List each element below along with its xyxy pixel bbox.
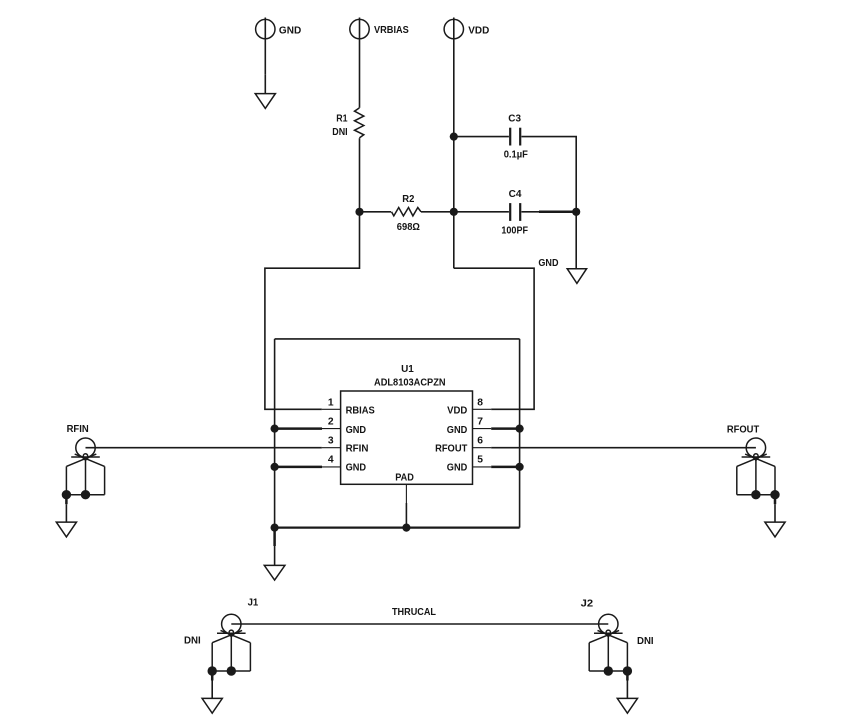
- svg-text:DNI: DNI: [332, 127, 347, 138]
- wire VRBIAS to R1: [359, 18, 361, 108]
- node VDD/C3 junction: [450, 133, 458, 141]
- svg-text:5: 5: [477, 454, 483, 465]
- svg-text:R1: R1: [336, 114, 348, 125]
- wire C4 right: [522, 211, 540, 213]
- svg-text:RFOUT: RFOUT: [727, 424, 760, 435]
- svg-text:DNI: DNI: [637, 636, 654, 647]
- svg-text:RFOUT: RFOUT: [435, 443, 468, 454]
- svg-text:GND: GND: [346, 425, 367, 436]
- chip body: [341, 391, 473, 484]
- svg-text:VDD: VDD: [468, 25, 489, 36]
- wire C4 right thick: [539, 211, 576, 214]
- svg-text:C4: C4: [509, 189, 522, 200]
- capacitor C3 0.1uF: [504, 113, 528, 160]
- connector J1 (DNI): [184, 598, 259, 713]
- svg-text:GND: GND: [447, 462, 468, 473]
- pin 2 stub: [322, 428, 341, 430]
- svg-text:RBIAS: RBIAS: [346, 406, 375, 417]
- wire THRUCAL J1 to J2: [231, 623, 608, 625]
- wire to C4: [454, 211, 509, 213]
- svg-text:GND: GND: [279, 25, 301, 36]
- svg-text:3: 3: [328, 436, 334, 447]
- resistor R1 (DNI): [332, 108, 364, 138]
- connector RFOUT: [727, 424, 785, 537]
- connector J2 (DNI): [581, 598, 654, 713]
- wire pin4 thick: [275, 466, 322, 469]
- wire GND loop left upper: [274, 339, 276, 429]
- power port VRBIAS: [350, 19, 409, 38]
- svg-text:RFIN: RFIN: [346, 443, 369, 454]
- wire pin5 thick: [491, 466, 519, 469]
- pin 6 stub: [472, 447, 491, 449]
- power port VDD: [444, 19, 489, 38]
- wire VDD vertical: [453, 18, 455, 269]
- wire GND loop bottom: [275, 526, 520, 528]
- svg-text:100PF: 100PF: [501, 226, 528, 237]
- svg-text:7: 7: [477, 417, 483, 428]
- node PAD junction: [402, 524, 410, 532]
- svg-text:6: 6: [477, 436, 483, 447]
- wire down to ground: [575, 212, 577, 269]
- op IC U1 ADL8103ACPZN: [322, 364, 491, 528]
- wire pin7 thick: [491, 427, 519, 430]
- pin 7 stub: [472, 428, 491, 430]
- svg-text:8: 8: [477, 398, 483, 409]
- svg-text:1: 1: [328, 398, 334, 409]
- pin PAD stub: [405, 484, 407, 503]
- pin 8 stub: [472, 408, 491, 410]
- svg-text:R2: R2: [402, 194, 414, 205]
- svg-text:GND: GND: [346, 462, 367, 473]
- node C3/C4 right junction: [572, 208, 580, 216]
- wire RBIAS net (R2 left to pin 1): [265, 212, 360, 409]
- svg-text:0.1µF: 0.1µF: [504, 149, 528, 160]
- svg-text:698Ω: 698Ω: [397, 222, 420, 233]
- wire pin2 thick: [275, 427, 322, 430]
- svg-text:U1: U1: [401, 364, 414, 375]
- svg-text:J1: J1: [248, 598, 259, 609]
- pin 1 stub: [322, 408, 341, 410]
- svg-text:ADL8103ACPZN: ADL8103ACPZN: [374, 377, 446, 388]
- wire GND loop left lower (thick): [274, 429, 276, 528]
- svg-text:GND: GND: [538, 258, 558, 269]
- svg-text:J2: J2: [581, 598, 594, 609]
- svg-text:RFIN: RFIN: [67, 424, 89, 435]
- capacitor C4 100PF: [501, 189, 528, 237]
- pin 5 stub: [472, 466, 491, 468]
- node bottom-left junction: [271, 524, 279, 532]
- node pin4 junction: [271, 463, 279, 471]
- svg-text:4: 4: [328, 454, 334, 465]
- svg-text:VDD: VDD: [447, 406, 467, 417]
- wire RFIN to pin 3: [86, 447, 322, 449]
- wire VDD net (elbow to pin 8): [454, 268, 534, 409]
- node R2 left junction: [355, 208, 363, 216]
- node pin5 junction: [516, 463, 524, 471]
- node pin2 junction: [271, 425, 279, 433]
- ground (below GND port): [255, 94, 275, 109]
- wire GND stub below bottom: [273, 528, 276, 546]
- svg-text:2: 2: [328, 417, 334, 428]
- wire R1 to R2 node: [359, 138, 361, 212]
- wire to C3: [454, 136, 509, 138]
- ground (below chip): [264, 546, 285, 580]
- svg-text:VRBIAS: VRBIAS: [374, 25, 409, 36]
- wire GND loop top: [275, 338, 520, 340]
- svg-text:THRUCAL: THRUCAL: [392, 607, 436, 618]
- ground (right of C4): [538, 258, 586, 284]
- node pin7 junction: [516, 425, 524, 433]
- svg-text:C3: C3: [508, 113, 521, 124]
- svg-text:GND: GND: [447, 425, 468, 436]
- svg-text:PAD: PAD: [395, 473, 414, 484]
- svg-text:DNI: DNI: [184, 636, 201, 647]
- connector RFIN: [56, 424, 104, 537]
- power port GND (top left): [256, 18, 302, 94]
- resistor R2 698ohm: [360, 194, 454, 233]
- wire pin 6 to RFOUT: [491, 447, 756, 449]
- wire C3 right: [522, 137, 577, 212]
- pin 4 stub: [322, 466, 341, 468]
- pin 3 stub: [322, 447, 341, 449]
- node R2 right junction: [450, 208, 458, 216]
- wire GND loop right: [519, 339, 521, 528]
